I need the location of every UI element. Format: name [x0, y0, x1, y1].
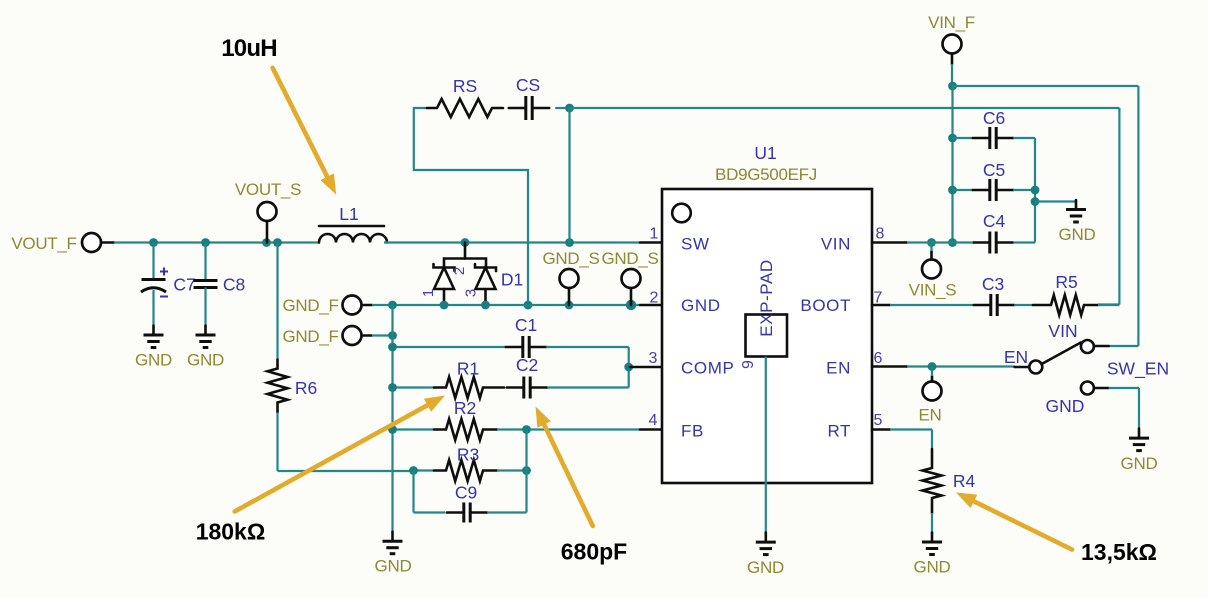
wire — [930, 243, 932, 252]
label L1 — [339, 204, 358, 224]
junction — [948, 186, 957, 195]
wire — [1013, 137, 1035, 139]
junction — [388, 425, 397, 434]
wire — [1013, 241, 1035, 243]
svg-text:GND_F: GND_F — [282, 296, 338, 315]
label C9 — [455, 483, 477, 503]
wire — [951, 54, 954, 64]
callout arrow — [956, 493, 1072, 550]
label SW_EN — [1107, 359, 1169, 380]
wire L1 to SW pin — [384, 241, 640, 243]
svg-text:VIN_F: VIN_F — [928, 13, 975, 32]
wire — [362, 304, 372, 307]
pin number 3 — [649, 350, 658, 367]
wire cap bank right — [1034, 138, 1036, 243]
wire — [640, 304, 662, 307]
capacitor C7 — [141, 268, 168, 297]
svg-text:RS: RS — [453, 76, 477, 96]
svg-text:CS: CS — [516, 75, 540, 95]
svg-text:VIN_S: VIN_S — [909, 281, 957, 300]
wire — [487, 511, 526, 513]
pin name FB — [681, 422, 704, 441]
svg-text:GND: GND — [135, 351, 172, 370]
junction — [565, 104, 574, 113]
svg-text:SW_EN: SW_EN — [1107, 359, 1169, 380]
label R5 — [1055, 272, 1077, 292]
pin 1 of D1 — [420, 289, 437, 297]
junction — [522, 466, 531, 475]
svg-text:R4: R4 — [953, 471, 976, 491]
net label GND — [747, 558, 784, 577]
svg-text:EN: EN — [918, 406, 941, 425]
resistor R5 — [1033, 295, 1098, 315]
wire — [890, 428, 932, 430]
svg-text:GND: GND — [1046, 396, 1085, 416]
svg-text:VOUT_S: VOUT_S — [235, 180, 301, 199]
svg-text:GND: GND — [681, 296, 721, 315]
svg-text:1: 1 — [420, 289, 437, 297]
net label GND_S — [542, 249, 599, 268]
svg-text:EXP-PAD: EXP-PAD — [757, 259, 776, 337]
svg-text:3: 3 — [649, 350, 658, 367]
pin number 1 — [650, 226, 659, 243]
port EN — [923, 382, 942, 401]
pin-1 marker — [672, 204, 691, 223]
junction — [522, 425, 531, 434]
junction — [565, 301, 574, 310]
wire — [951, 64, 953, 86]
pin number 2 — [650, 290, 659, 307]
junction — [928, 362, 937, 371]
capacitor C2 — [507, 377, 547, 399]
net label GND — [1059, 225, 1096, 244]
wire — [931, 513, 933, 533]
wire — [907, 365, 1015, 367]
svg-text:C2: C2 — [516, 355, 538, 375]
label C6 — [983, 108, 1005, 128]
wire — [640, 428, 662, 431]
svg-text:R1: R1 — [457, 359, 479, 379]
annotation 180k — [196, 519, 266, 545]
junction — [481, 301, 490, 310]
wire — [266, 222, 269, 243]
svg-text:C1: C1 — [515, 315, 537, 335]
pin name SW — [681, 235, 710, 254]
svg-text:R3: R3 — [457, 445, 479, 465]
svg-text:GND_F: GND_F — [282, 327, 338, 346]
svg-text:2: 2 — [451, 267, 468, 275]
wire — [152, 290, 154, 326]
capacitor CS — [509, 96, 549, 120]
ground — [144, 326, 164, 348]
capacitor C6 — [973, 127, 1013, 149]
label RS — [453, 76, 477, 96]
net label EN — [918, 406, 941, 425]
ground — [1066, 200, 1086, 222]
svg-text:3: 3 — [463, 289, 480, 297]
wire BOOT top run — [570, 107, 1120, 109]
junction — [1031, 197, 1040, 206]
wire — [497, 428, 640, 430]
wire — [414, 108, 528, 305]
wire — [1014, 304, 1033, 306]
pin 3 of D1 — [463, 289, 480, 297]
junction — [388, 301, 397, 310]
svg-text:C7: C7 — [173, 275, 195, 295]
label R3 — [457, 445, 479, 465]
svg-text:VOUT_F: VOUT_F — [11, 234, 76, 253]
label C3 — [982, 274, 1004, 294]
svg-text:2: 2 — [650, 290, 659, 307]
wire — [276, 413, 278, 472]
svg-text:R6: R6 — [295, 378, 317, 398]
port GND_F — [343, 326, 362, 345]
port VIN_F — [943, 35, 962, 54]
wire — [414, 469, 435, 471]
wire — [931, 376, 934, 381]
junction — [388, 343, 397, 352]
capacitor C8 — [194, 281, 218, 288]
label U1 — [754, 143, 776, 163]
pin name RT — [827, 422, 851, 441]
capacitor C1 — [506, 336, 546, 358]
svg-text:6: 6 — [874, 350, 883, 367]
wire — [102, 241, 115, 244]
label R6 — [295, 378, 317, 398]
junction — [461, 238, 470, 247]
capacitor C9 — [447, 503, 487, 523]
wire snubber to SW — [568, 108, 570, 243]
junction — [262, 238, 271, 247]
net label VOUT_S — [235, 180, 301, 199]
svg-text:GND: GND — [375, 557, 412, 576]
port GND_F — [343, 296, 362, 315]
junction — [948, 134, 957, 143]
net label GND — [375, 557, 412, 576]
wire — [412, 471, 414, 513]
svg-text:FB: FB — [681, 422, 704, 441]
wire — [1109, 345, 1139, 347]
wire — [1118, 108, 1120, 305]
svg-text:C3: C3 — [982, 274, 1004, 294]
port VOUT_F — [82, 233, 101, 252]
exposed pad — [746, 315, 788, 357]
pin number 7 — [874, 290, 883, 307]
svg-text:RT: RT — [827, 422, 851, 441]
wire — [872, 365, 907, 368]
svg-text:C5: C5 — [983, 160, 1005, 180]
junction — [948, 82, 957, 91]
resistor R4 — [923, 449, 942, 513]
label R2 — [454, 398, 476, 418]
junction — [524, 301, 533, 310]
svg-text:13,5kΩ: 13,5kΩ — [1081, 539, 1157, 565]
svg-text:SW: SW — [681, 235, 710, 254]
switch SW_EN — [1015, 340, 1109, 395]
wire — [555, 107, 569, 109]
svg-text:GND_S: GND_S — [601, 249, 658, 268]
wire — [1138, 388, 1140, 429]
wire — [414, 511, 446, 513]
wire — [152, 243, 154, 280]
ground — [756, 533, 776, 555]
capacitor C5 — [973, 179, 1013, 201]
svg-text:C4: C4 — [983, 211, 1006, 231]
wire — [1098, 303, 1119, 305]
pin name BOOT — [800, 296, 851, 315]
wire — [931, 430, 933, 450]
resistor RS — [427, 99, 503, 117]
wire — [953, 137, 974, 139]
svg-text:C9: C9 — [455, 483, 477, 503]
port GND_S — [560, 269, 579, 288]
svg-text:10uH: 10uH — [221, 35, 277, 62]
pin number 6 — [874, 350, 883, 367]
label C8 — [223, 275, 245, 295]
port VOUT_S — [258, 202, 277, 221]
junction — [624, 363, 633, 372]
junction — [149, 238, 158, 247]
junction — [948, 238, 957, 247]
net label GND_F — [282, 296, 338, 315]
label BD9G500EFJ — [715, 165, 817, 184]
svg-text:L1: L1 — [339, 204, 358, 224]
label C4 — [983, 211, 1006, 231]
junction — [201, 238, 210, 247]
junction — [388, 383, 397, 392]
svg-text:GND: GND — [1121, 454, 1158, 473]
wire — [204, 243, 206, 281]
label R1 — [457, 359, 479, 379]
junction — [626, 300, 636, 310]
wire — [276, 243, 278, 360]
svg-text:GND: GND — [747, 558, 784, 577]
wire VIN vertical — [951, 86, 953, 243]
net label VIN_S — [909, 281, 957, 300]
svg-text:C6: C6 — [983, 108, 1005, 128]
svg-text:R2: R2 — [454, 398, 476, 418]
ground — [196, 326, 216, 348]
pin name COMP — [681, 359, 734, 378]
wire — [953, 189, 974, 191]
svg-text:VIN: VIN — [821, 235, 851, 254]
wire — [568, 289, 571, 306]
svg-text:8: 8 — [876, 226, 885, 243]
svg-text:5: 5 — [874, 412, 883, 429]
pin number 5 — [874, 412, 883, 429]
wire — [1013, 189, 1035, 191]
capacitor C3 — [974, 294, 1014, 316]
wire — [1035, 200, 1076, 202]
svg-text:9: 9 — [740, 360, 757, 369]
label R4 — [953, 471, 976, 491]
net label GND_S — [601, 249, 658, 268]
svg-text:180kΩ: 180kΩ — [196, 519, 266, 545]
wire GND row — [372, 304, 640, 306]
svg-text:EN: EN — [826, 359, 851, 378]
wire — [872, 428, 890, 431]
svg-text:GND: GND — [914, 558, 951, 577]
wire — [872, 304, 890, 307]
svg-text:R5: R5 — [1055, 272, 1077, 292]
junction — [409, 466, 418, 475]
junction — [565, 238, 574, 247]
svg-text:GND: GND — [187, 351, 224, 370]
callout arrow — [235, 396, 445, 512]
svg-text:GND_S: GND_S — [542, 249, 599, 268]
port GND_S — [622, 269, 641, 288]
wire — [525, 430, 527, 513]
wire VIN_F top run — [953, 85, 1139, 87]
ground — [1129, 429, 1149, 451]
wire — [630, 289, 633, 306]
wire — [497, 469, 527, 471]
port VIN_S — [922, 260, 941, 279]
wire — [204, 288, 206, 326]
pin number 8 — [876, 226, 885, 243]
wire — [372, 334, 393, 336]
annotation 10uH — [221, 35, 277, 62]
resistor R3 — [434, 460, 497, 481]
wire — [393, 386, 435, 388]
wire — [628, 367, 630, 388]
wire — [1109, 387, 1139, 389]
svg-text:D1: D1 — [501, 270, 523, 290]
label EXP-PAD — [757, 259, 776, 337]
svg-text:1: 1 — [650, 226, 659, 243]
svg-text:VIN: VIN — [1048, 321, 1077, 341]
wire — [872, 241, 907, 244]
inductor L1 — [319, 226, 387, 243]
net label VOUT_F — [11, 234, 76, 253]
wire — [640, 241, 662, 244]
capacitor C4 — [973, 232, 1013, 254]
svg-text:680pF: 680pF — [561, 539, 627, 565]
wire — [1098, 304, 1119, 306]
wire — [546, 346, 629, 348]
ground — [922, 533, 942, 555]
wire — [890, 304, 973, 306]
wire — [547, 386, 629, 388]
wire VOUT to L1 — [114, 241, 319, 243]
junction — [388, 331, 397, 340]
resistor R2 — [434, 419, 497, 440]
svg-text:BOOT: BOOT — [800, 296, 851, 315]
wire — [930, 251, 933, 259]
junction — [1031, 186, 1040, 195]
wire EXP-PAD to gnd — [765, 357, 767, 533]
label C2 — [516, 355, 538, 375]
ground — [383, 532, 403, 554]
label CS — [516, 75, 540, 95]
callout arrow — [536, 407, 593, 527]
label EN — [1004, 347, 1028, 367]
label GND — [1046, 396, 1085, 416]
annotation 680pF — [561, 539, 627, 565]
wire — [931, 367, 933, 377]
wire — [278, 470, 414, 472]
svg-text:COMP: COMP — [681, 359, 734, 378]
svg-text:EN: EN — [1004, 347, 1028, 367]
wire — [362, 334, 372, 337]
wire — [393, 346, 506, 348]
wire — [393, 428, 435, 430]
label VIN — [1048, 321, 1077, 341]
wire — [1137, 86, 1139, 346]
pin name GND — [681, 296, 721, 315]
pin number 4 — [649, 412, 658, 429]
callout arrow — [273, 68, 337, 195]
diode D1 — [434, 243, 497, 306]
net label GND — [187, 351, 224, 370]
op-amp U1 body — [662, 189, 872, 483]
svg-text:C8: C8 — [223, 275, 245, 295]
svg-text:GND: GND — [1059, 225, 1096, 244]
wire — [630, 366, 662, 369]
annotation 13,5k — [1081, 539, 1157, 565]
label C1 — [515, 315, 537, 335]
net label GND — [914, 558, 951, 577]
svg-text:BD9G500EFJ: BD9G500EFJ — [715, 165, 817, 184]
junction — [440, 301, 449, 310]
label D1 — [501, 270, 523, 290]
resistor R6 — [268, 360, 288, 413]
junction — [927, 238, 936, 247]
wire — [907, 241, 973, 243]
net label GND — [1121, 454, 1158, 473]
wire — [628, 347, 630, 367]
label C5 — [983, 160, 1005, 180]
label C7 — [173, 275, 195, 295]
pin name VIN — [821, 235, 851, 254]
net label VIN_F — [928, 13, 975, 32]
pin number 9 — [740, 360, 757, 369]
net label GND_F — [282, 327, 338, 346]
pin 2 of D1 — [451, 267, 468, 275]
resistor R1 — [434, 377, 504, 398]
net label GND — [135, 351, 172, 370]
wire GND vertical — [391, 305, 393, 532]
svg-text:4: 4 — [649, 412, 658, 429]
svg-text:U1: U1 — [754, 143, 776, 163]
pin name EN — [826, 359, 851, 378]
junction — [273, 238, 282, 247]
